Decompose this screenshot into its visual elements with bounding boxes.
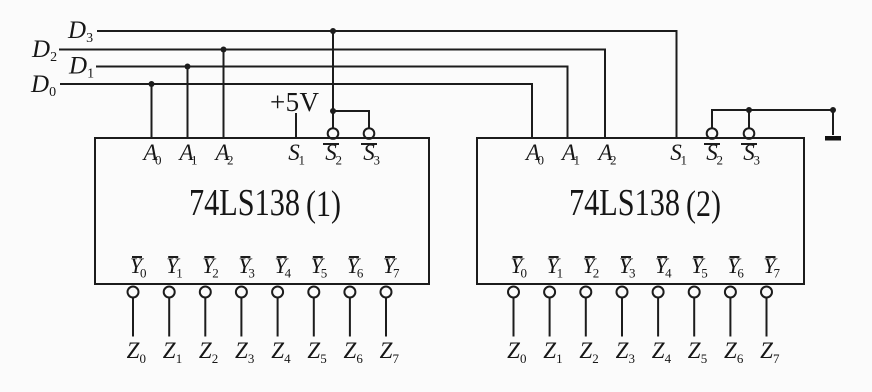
node Z3 label (U1) (235, 338, 254, 366)
node Z5 label (U1) (307, 338, 326, 366)
wire U1 Y4 to Z4 (277, 298, 279, 337)
bubble U1 Y3bar (236, 287, 247, 298)
node Z2 label (U1) (199, 338, 218, 366)
svg-text:Z: Z (652, 338, 665, 363)
svg-text:2: 2 (610, 153, 617, 168)
svg-text:3: 3 (248, 351, 255, 366)
svg-text:3: 3 (629, 351, 636, 366)
bubble U1 S2bar (328, 128, 339, 139)
wire U2 Y1 to Z1 (549, 298, 551, 337)
wire U2 enable net (712, 110, 833, 135)
bubble U2 Y0bar (508, 287, 519, 298)
pin U2 Y3bar label (619, 253, 636, 281)
wire U2 Y7 to Z7 (766, 298, 768, 337)
pin U1 Y7bar label (383, 253, 400, 281)
junction D0/A0 (149, 81, 155, 87)
svg-text:3: 3 (754, 153, 761, 168)
svg-text:Z: Z (579, 338, 592, 363)
bubble U2 Y6bar (725, 287, 736, 298)
svg-text:Z: Z (380, 338, 393, 363)
svg-text:3: 3 (248, 266, 255, 281)
bubble U2 Y2bar (580, 287, 591, 298)
node Z5 label (U2) (688, 338, 707, 366)
svg-text:3: 3 (629, 266, 636, 281)
wire U1 Y0 to Z0 (132, 298, 134, 337)
bubble U2 Y5bar (689, 287, 700, 298)
pin U1 Y5bar label (311, 253, 328, 281)
wire U1 Y5 to Z5 (313, 298, 315, 337)
wire D0 (60, 84, 532, 138)
junction D1/A1 (185, 64, 191, 70)
wire U1 Y1 to Z1 (168, 298, 170, 337)
svg-text:1: 1 (176, 351, 183, 366)
pin U2 Y6bar label (727, 253, 744, 281)
wire U1 Y3 to Z3 (240, 298, 242, 337)
bubble U1 Y1bar (164, 287, 175, 298)
pin U2 A0 label (524, 140, 544, 168)
bubble U1 Y6bar (344, 287, 355, 298)
svg-text:Z: Z (616, 338, 629, 363)
IC U2 74LS138(2) body (477, 138, 804, 284)
wire U1 A0 drop (151, 84, 153, 138)
svg-text:(2): (2) (686, 184, 721, 225)
svg-text:7: 7 (393, 351, 400, 366)
node Z2 label (U2) (579, 338, 598, 366)
junction ground corner (830, 107, 836, 113)
svg-text:5: 5 (701, 266, 708, 281)
pin U2 Y5bar label (691, 253, 708, 281)
svg-text:5: 5 (321, 266, 328, 281)
pin U2 S1 label (670, 140, 687, 168)
junction D3/S2bar (330, 28, 336, 34)
pin U1 A0 label (141, 140, 161, 168)
svg-text:Z: Z (235, 338, 248, 363)
svg-text:0: 0 (140, 351, 147, 366)
pin U1 S1 label (288, 140, 305, 168)
wire U1 Y2 to Z2 (204, 298, 206, 337)
svg-text:Z: Z (543, 338, 556, 363)
svg-text:74LS138: 74LS138 (189, 182, 300, 224)
svg-text:Z: Z (688, 338, 701, 363)
wire U2 Y0 to Z0 (513, 298, 515, 337)
bubble U2 Y4bar (653, 287, 664, 298)
pin U1 A2 label (213, 140, 233, 168)
svg-text:2: 2 (717, 153, 724, 168)
svg-text:2: 2 (212, 266, 219, 281)
node Z7 label (U1) (380, 338, 400, 366)
pin U1 A1 label (177, 140, 197, 168)
wire U1 Y6 to Z6 (349, 298, 351, 337)
bubble U1 Y4bar (272, 287, 283, 298)
node Z4 label (U1) (271, 338, 291, 366)
pin U1 Y1bar label (166, 253, 183, 281)
svg-text:Z: Z (760, 338, 773, 363)
svg-text:Z: Z (199, 338, 212, 363)
node Z1 label (U2) (543, 338, 562, 366)
bubble U2 S2bar (707, 128, 718, 139)
node Z0 label (U2) (507, 338, 526, 366)
ground (825, 136, 841, 141)
pin U2 Y7bar label (763, 253, 780, 281)
bubble U2 Y7bar (761, 287, 772, 298)
svg-text:1: 1 (299, 153, 306, 168)
bubble U2 S3bar (744, 128, 755, 139)
svg-text:2: 2 (592, 351, 599, 366)
svg-text:1: 1 (176, 266, 183, 281)
svg-text:2: 2 (212, 351, 219, 366)
svg-text:0: 0 (140, 266, 147, 281)
svg-text:Z: Z (163, 338, 176, 363)
pin U2 Y0bar label (510, 253, 527, 281)
svg-text:2: 2 (227, 153, 234, 168)
pin U2 Y1bar label (546, 253, 563, 281)
pin U2 Y2bar label (583, 253, 600, 281)
bubble U1 Y2bar (200, 287, 211, 298)
svg-text:7: 7 (393, 266, 400, 281)
pin U1 Y3bar label (238, 253, 255, 281)
node Z3 label (U2) (616, 338, 635, 366)
pin U2 S2bar label (704, 140, 723, 168)
junction S2bar/S3bar (330, 108, 336, 114)
pin U2 A1 label (560, 140, 580, 168)
wire D3 (97, 31, 677, 138)
svg-text:6: 6 (356, 351, 363, 366)
svg-text:2: 2 (593, 266, 600, 281)
svg-text:0: 0 (520, 351, 527, 366)
svg-text:Z: Z (344, 338, 357, 363)
bubble U1 Y0bar (128, 287, 139, 298)
wire U1 Y7 to Z7 (385, 298, 387, 337)
svg-text:Z: Z (724, 338, 737, 363)
svg-text:Z: Z (127, 338, 140, 363)
wire D3 to U1 S2bar/S3bar (333, 31, 369, 128)
node Z0 label (U1) (127, 338, 146, 366)
svg-text:5: 5 (701, 351, 708, 366)
svg-text:Z: Z (507, 338, 520, 363)
svg-text:2: 2 (336, 153, 343, 168)
pin U1 Y6bar label (347, 253, 364, 281)
svg-text:1: 1 (191, 153, 198, 168)
bubble U1 S3bar (364, 128, 375, 139)
svg-text:1: 1 (574, 153, 581, 168)
wire D1 (96, 67, 568, 139)
svg-text:74LS138: 74LS138 (569, 182, 680, 224)
svg-text:1: 1 (681, 153, 688, 168)
svg-text:5: 5 (320, 351, 327, 366)
svg-text:+5V: +5V (270, 87, 320, 117)
svg-text:7: 7 (773, 351, 780, 366)
svg-text:0: 0 (521, 266, 528, 281)
svg-text:4: 4 (285, 266, 292, 281)
pin U1 S3bar label (361, 140, 380, 168)
wire U2 Y4 to Z4 (657, 298, 659, 337)
pin U1 S2bar label (323, 140, 342, 168)
svg-text:6: 6 (737, 266, 744, 281)
node Z1 label (U1) (163, 338, 182, 366)
svg-text:7: 7 (774, 266, 781, 281)
svg-text:Z: Z (307, 338, 320, 363)
svg-text:3: 3 (374, 153, 381, 168)
svg-text:0: 0 (155, 153, 162, 168)
node Z6 label (U2) (724, 338, 744, 366)
wire U1 A2 drop (223, 50, 225, 139)
bubble U1 Y5bar (308, 287, 319, 298)
bubble U2 Y3bar (617, 287, 628, 298)
pin U2 S3bar label (741, 140, 760, 168)
svg-text:6: 6 (357, 266, 364, 281)
pin U1 Y4bar label (274, 253, 291, 281)
svg-text:1: 1 (557, 266, 564, 281)
node Z7 label (U2) (760, 338, 780, 366)
svg-text:4: 4 (665, 266, 672, 281)
bubble U2 Y1bar (544, 287, 555, 298)
junction S3bar stub (746, 107, 752, 113)
wire U2 Y6 to Z6 (729, 298, 731, 337)
wire U2 Y2 to Z2 (585, 298, 587, 337)
pin U2 Y4bar label (655, 253, 672, 281)
node Z6 label (U1) (344, 338, 364, 366)
svg-text:Z: Z (271, 338, 284, 363)
pin U1 Y2bar label (202, 253, 219, 281)
bubble U1 Y7bar (381, 287, 392, 298)
wire +5V to U1 S1 (295, 113, 297, 138)
svg-text:0: 0 (538, 153, 545, 168)
svg-text:1: 1 (556, 351, 563, 366)
svg-text:4: 4 (665, 351, 672, 366)
svg-text:(1): (1) (306, 184, 341, 225)
wire D2 (59, 50, 605, 139)
pin U2 A2 label (596, 140, 616, 168)
IC U1 74LS138(1) body (95, 138, 429, 284)
junction D2/A2 (221, 47, 227, 53)
node Z4 label (U2) (652, 338, 672, 366)
wire U2 Y5 to Z5 (693, 298, 695, 337)
wire U1 A1 drop (187, 67, 189, 139)
svg-text:6: 6 (737, 351, 744, 366)
pin U1 Y0bar label (130, 253, 147, 281)
wire U2 Y3 to Z3 (621, 298, 623, 337)
svg-text:4: 4 (284, 351, 291, 366)
